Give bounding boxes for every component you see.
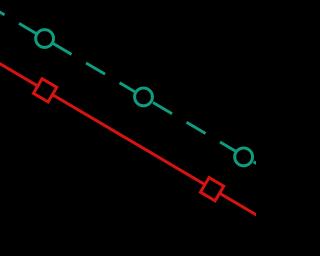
node E: square marker 2 <box>200 178 223 201</box>
wire: red solid series line <box>0 58 260 217</box>
wire: teal dashed series line <box>0 0 260 166</box>
node C: circle marker 3 <box>235 148 253 166</box>
node A: circle marker 1 <box>36 30 54 48</box>
node D: square marker 1 <box>33 79 56 102</box>
node B: circle marker 2 <box>135 88 153 106</box>
